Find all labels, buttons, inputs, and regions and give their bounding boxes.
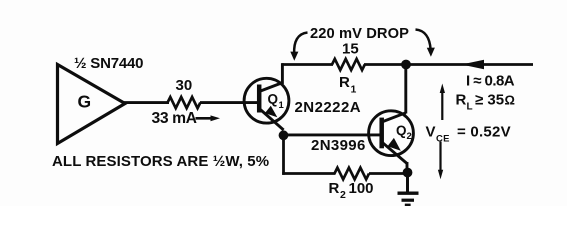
svg-text:2: 2 [340,189,346,201]
wire resistor 30 to Q1 base [200,101,257,104]
wire gate output [124,101,169,104]
wire Q1 collector [281,63,284,84]
label Q2 [396,123,412,142]
arrowhead load current into rail [462,60,485,70]
wire top rail right of R1 [364,63,533,66]
svg-text:I ≈ 0.8A: I ≈ 0.8A [466,72,515,89]
svg-text:15: 15 [342,41,359,58]
svg-text:1: 1 [279,100,285,111]
label RL ≥ 35Ω [456,92,515,113]
svg-text:2: 2 [407,131,412,142]
resistor R2 100 [335,168,370,180]
resistor R 30 [168,97,201,108]
ground [398,173,419,205]
svg-text:L: L [467,102,473,113]
arrow curved left 220mV [290,33,307,61]
wire bottom left of R2 [282,172,335,175]
junction node top rail [401,60,411,70]
svg-text:V: V [426,123,436,140]
svg-text:CE: CE [436,133,450,144]
wire bottom right of R2 [369,172,408,175]
svg-text:1: 1 [351,83,357,95]
arrow VCE down [438,142,443,180]
arrow 33 mA current direction [196,115,221,121]
svg-text:Ω: Ω [505,93,515,108]
transistor Q2 2N3996 [369,111,414,164]
junction node Q2 emitter ground [403,168,413,178]
svg-text:≥ 35: ≥ 35 [475,92,504,109]
svg-text:2N2222A: 2N2222A [295,99,362,116]
wire top rail left of R1 [282,63,333,66]
svg-text:2N3996: 2N3996 [311,137,366,154]
label Q1 [268,92,285,112]
svg-text:Q: Q [396,123,407,138]
resistor R1 15 [332,59,365,70]
svg-text:33 mA: 33 mA [152,110,197,127]
svg-text:R: R [329,180,340,197]
wire Q2 base [284,133,381,136]
svg-text:R: R [456,92,467,109]
arrow VCE up [440,84,445,121]
transistor Q1 2N2222A [244,78,289,130]
svg-text:= 0.52V: = 0.52V [457,123,511,140]
label R1 [339,74,357,96]
label R2 100 [329,180,374,201]
svg-text:100: 100 [349,180,374,197]
arrow curved right 220mV [416,30,435,57]
svg-text:½ SN7440: ½ SN7440 [74,55,143,72]
svg-text:220 mV DROP: 220 mV DROP [310,26,409,42]
gate U1 half SN7440 buffer triangle [58,65,126,144]
wire emitter junction down [282,135,285,175]
wire Q2 collector [404,66,407,114]
svg-text:R: R [339,74,350,91]
junction node Q1 emitter [279,130,289,140]
label VCE = 0.52V [426,123,511,144]
svg-text:30: 30 [176,77,193,94]
svg-text:G: G [78,92,92,112]
svg-text:Q: Q [268,92,279,107]
wire Q2 emitter down [406,162,409,173]
svg-text:ALL RESISTORS ARE ½W, 5%: ALL RESISTORS ARE ½W, 5% [52,153,269,170]
